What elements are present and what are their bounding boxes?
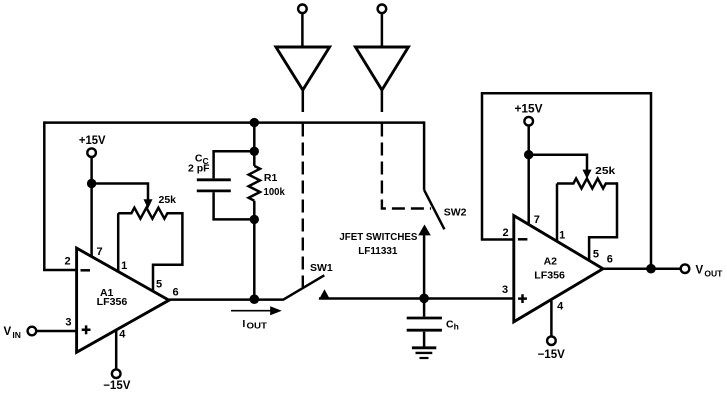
wire pot right to pin 5 A2 (589, 182, 617, 260)
svg-text:A2: A2 (544, 255, 558, 267)
svg-text:5: 5 (156, 278, 162, 290)
driver U2 input wire (381, 13, 384, 47)
svg-text:4: 4 (557, 301, 564, 313)
potentiometer 25k A1 wiper arrow (144, 199, 153, 208)
op-amp A2 (514, 216, 603, 322)
driver U1 output stub (302, 90, 305, 112)
svg-text:2: 2 (64, 255, 70, 267)
node junction +15V A1 (87, 179, 96, 188)
node Ch junction (419, 294, 429, 304)
svg-text:25k: 25k (159, 194, 177, 206)
svg-text:OUT: OUT (247, 321, 268, 331)
terminal VOUT (681, 264, 690, 273)
capacitor Cc plates (197, 180, 231, 191)
svg-text:LF11331: LF11331 (358, 245, 397, 257)
wire SW1 to A2 pin 3 (319, 297, 514, 300)
wire A1 feedback left side to pin 2 (44, 121, 76, 270)
svg-text:7: 7 (534, 214, 540, 226)
plus sign A2 pin3 (518, 294, 527, 303)
wire A2 output (603, 267, 681, 270)
svg-text:4: 4 (119, 328, 126, 340)
svg-text:R1: R1 (264, 172, 278, 184)
svg-text:+15V: +15V (515, 104, 543, 116)
plus sign A1 pin3 (82, 325, 91, 334)
svg-text:SW2: SW2 (444, 206, 467, 218)
potentiometer 25k A2 wiper wire (529, 155, 587, 170)
dashed control line to SW2 (382, 124, 431, 209)
svg-text:h: h (454, 322, 459, 332)
svg-text:−15V: −15V (103, 380, 131, 392)
capacitor Cc top wire (214, 151, 255, 178)
node Cc bottom junction (250, 215, 259, 224)
svg-text:JFET SWITCHES: JFET SWITCHES (339, 232, 417, 243)
resistor R1 100k (249, 166, 260, 201)
driver U2 input terminal (378, 5, 387, 14)
wire SW2 pole (423, 121, 426, 189)
svg-text:IN: IN (12, 330, 21, 340)
wire pot left to pin 1 A2 (556, 184, 559, 242)
driver U2 triangle (355, 47, 408, 90)
op-amp A1 (77, 248, 169, 352)
svg-text:100k: 100k (264, 186, 285, 198)
wire pin 4 A2 (550, 301, 553, 337)
svg-text:7: 7 (96, 246, 102, 258)
minus sign A1 pin2 (81, 269, 91, 272)
svg-text:I: I (242, 318, 245, 330)
switch SW1 blade (283, 275, 324, 300)
capacitor Ch top wire (423, 298, 426, 316)
wire pin 4 A1 (115, 330, 118, 370)
svg-text:−15V: −15V (538, 349, 566, 361)
svg-text:SW1: SW1 (310, 262, 333, 274)
capacitor Ch plates (407, 318, 442, 330)
driver U1 input terminal (298, 5, 307, 14)
svg-text:LF356: LF356 (534, 270, 565, 282)
svg-text:5: 5 (593, 248, 599, 260)
wire pot right to pin 5 A1 (153, 212, 182, 291)
capacitor Cc bottom wire (214, 192, 255, 219)
resistor 25k A2 zigzag (557, 179, 617, 189)
node output junction (250, 294, 260, 304)
wire top feedback bus A1 to SW2 (44, 121, 424, 124)
potentiometer 25k A1 wiper wire (92, 184, 148, 200)
svg-text:25k: 25k (595, 165, 615, 177)
node Cc top junction (250, 147, 259, 156)
wire A1 output (169, 298, 284, 301)
resistor 25k A1 zigzag (118, 208, 182, 219)
svg-text:6: 6 (607, 253, 613, 265)
wire pot left to pin 1 A1 (117, 213, 120, 271)
wire R1 branch lower (253, 201, 256, 300)
svg-text:2: 2 (502, 227, 508, 239)
ground (412, 346, 436, 349)
driver U2 output stub (381, 90, 384, 112)
node A2 output junction (646, 264, 656, 274)
svg-text:V: V (696, 265, 704, 277)
node top junction above R1 (250, 118, 259, 127)
dashed control line to SW1 (302, 124, 304, 288)
svg-text:LF356: LF356 (97, 296, 128, 308)
terminal -15V A2 (547, 336, 556, 345)
node junction +15V A2 (524, 150, 533, 159)
svg-text:1: 1 (559, 229, 565, 241)
svg-text:1: 1 (121, 260, 127, 272)
svg-text:+15V: +15V (79, 135, 106, 147)
wire SW2 to Ch node (423, 235, 426, 298)
driver U1 input wire (301, 13, 304, 47)
svg-text:3: 3 (65, 316, 71, 328)
terminal VIN (28, 327, 37, 336)
svg-text:V: V (4, 326, 12, 338)
switch SW2 contact arrowhead (418, 225, 431, 236)
minus sign A2 pin2 (518, 238, 528, 241)
capacitor Ch bottom wire (423, 332, 426, 347)
terminal -15V A1 (112, 369, 121, 378)
svg-text:6: 6 (172, 286, 178, 298)
svg-text:2 pF: 2 pF (188, 163, 210, 175)
wire VIN to pin 3 (36, 330, 76, 333)
switch SW1 contact arrowhead (319, 289, 330, 299)
terminal +15V A2 (524, 117, 533, 126)
wire pin 7 A1 supply (90, 157, 93, 257)
terminal +15V A1 (87, 148, 96, 157)
driver U1 triangle (276, 47, 330, 90)
svg-text:3: 3 (502, 284, 508, 296)
wire A2 feedback loop pin2 (482, 93, 651, 269)
wire pin 7 A2 supply (527, 126, 530, 226)
svg-text:OUT: OUT (704, 269, 723, 279)
switch SW2 blade (424, 190, 444, 229)
potentiometer 25k A2 wiper arrow (583, 170, 592, 179)
arrow IOUT (231, 310, 272, 312)
wire R1 branch upper (253, 123, 256, 166)
